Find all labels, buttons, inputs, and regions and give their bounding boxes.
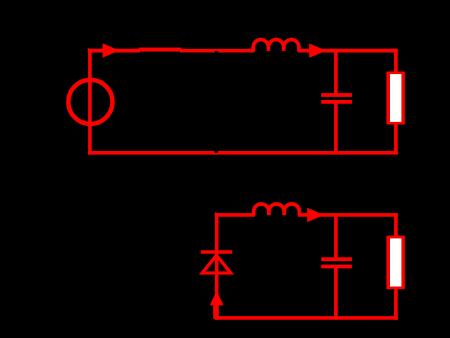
corner bump top-left (bottom circuit) bbox=[215, 213, 217, 214]
current arrow i (after source) bbox=[103, 43, 120, 58]
resistor R (bottom, white filled) bbox=[386, 236, 404, 290]
wire capacitor lower lead (bottom circuit) bbox=[334, 267, 338, 320]
wire left vertical branch (through source) bbox=[88, 49, 92, 155]
voltage source V bbox=[68, 80, 112, 124]
wire right vertical lower (from resistor, bottom circuit) bbox=[394, 288, 398, 320]
wire right vertical lower (from resistor, top circuit) bbox=[394, 123, 398, 155]
corner bump top-left bbox=[88, 48, 90, 49]
wire capacitor upper lead (bottom circuit) bbox=[334, 213, 338, 259]
wire top horizontal left segment (source to switch) bbox=[88, 49, 140, 53]
black notch on bottom wire bbox=[215, 151, 218, 153]
current arrow up (diode branch) head bbox=[210, 291, 224, 305]
current arrow iL (after inductor) bbox=[309, 44, 326, 58]
wire top horizontal right segment (inductor to top-right corner) bbox=[298, 49, 398, 53]
black notch on top wire (switch pivot) bbox=[215, 51, 218, 53]
diode D cathode bar bbox=[201, 250, 232, 253]
wire top horizontal right segment (inductor to corner, bottom circuit) bbox=[298, 213, 398, 217]
wire top horizontal middle segment (switch to inductor) bbox=[180, 49, 255, 53]
capacitor C (bottom) bbox=[321, 259, 352, 266]
resistor R (top, white filled) bbox=[386, 72, 404, 125]
wire capacitor lower lead (top circuit) bbox=[334, 102, 338, 155]
current arrow up (diode branch) stem bbox=[213, 304, 219, 319]
inductor L (top) bbox=[253, 40, 299, 51]
current arrow iL (bottom circuit) bbox=[307, 208, 324, 222]
wire capacitor upper lead (top circuit) bbox=[334, 49, 338, 95]
wire right vertical upper (to resistor, top circuit) bbox=[394, 49, 398, 73]
capacitor C (top) bbox=[321, 95, 352, 102]
diode D triangle bbox=[202, 255, 230, 273]
switch SW closed (raised segment on top wire) bbox=[139, 48, 182, 52]
inductor L (bottom) bbox=[254, 204, 300, 215]
wire left vertical branch (through diode, bottom circuit) bbox=[215, 213, 219, 320]
wire right vertical upper (to resistor, bottom circuit) bbox=[394, 213, 398, 237]
wire bottom horizontal (top circuit) bbox=[88, 151, 398, 155]
wire top horizontal left segment (diode to inductor, bottom circuit) bbox=[215, 213, 255, 217]
wire bottom horizontal (bottom circuit) bbox=[215, 316, 398, 320]
